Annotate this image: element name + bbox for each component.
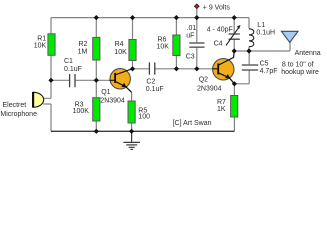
svg-text:1K: 1K	[217, 106, 226, 113]
svg-text:10K: 10K	[114, 49, 127, 56]
svg-text:C2: C2	[146, 79, 155, 86]
svg-text:1M: 1M	[78, 48, 88, 55]
svg-text:100K: 100K	[73, 108, 90, 115]
svg-text:Electret: Electret	[3, 102, 27, 109]
svg-text:+ 9 Volts: + 9 Volts	[203, 4, 231, 11]
svg-text:0.1uF: 0.1uF	[64, 66, 82, 73]
svg-text:uF: uF	[186, 33, 194, 40]
svg-text:10K: 10K	[157, 44, 170, 51]
svg-text:hookup wire: hookup wire	[281, 69, 319, 76]
svg-text:Antenna: Antenna	[295, 50, 321, 57]
svg-text:4.7pF: 4.7pF	[260, 68, 278, 75]
svg-text:Microphone: Microphone	[0, 111, 37, 118]
svg-text:100: 100	[138, 114, 150, 121]
svg-text:4 - 40pF: 4 - 40pF	[207, 26, 233, 33]
svg-text:Q2: Q2	[199, 76, 208, 83]
svg-text:Q1: Q1	[101, 89, 110, 96]
svg-text:C4: C4	[214, 40, 223, 47]
svg-text:.01: .01	[187, 25, 197, 32]
svg-text:0.1uH: 0.1uH	[256, 30, 275, 37]
svg-text:R2: R2	[78, 41, 87, 48]
svg-text:R4: R4	[115, 41, 124, 48]
svg-text:2N3904: 2N3904	[197, 86, 222, 93]
svg-text:C5: C5	[260, 60, 269, 67]
svg-text:C3: C3	[186, 53, 195, 60]
svg-text:R6: R6	[158, 36, 167, 43]
svg-text:L1: L1	[257, 22, 265, 29]
svg-text:2N3904: 2N3904	[100, 97, 125, 104]
svg-text:8 to 10" of: 8 to 10" of	[282, 62, 314, 69]
svg-text:C1: C1	[64, 58, 73, 65]
svg-text:R7: R7	[217, 99, 226, 106]
svg-text:[C] Art Swan: [C] Art Swan	[173, 120, 212, 127]
svg-text:R1: R1	[37, 36, 46, 43]
svg-text:10K: 10K	[34, 43, 47, 50]
svg-text:0.1uF: 0.1uF	[146, 86, 164, 93]
